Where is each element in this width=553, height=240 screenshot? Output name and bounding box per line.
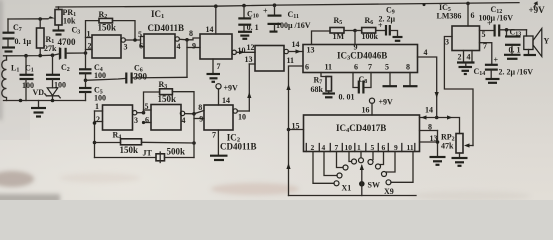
bottom wire of input tank bbox=[4, 100, 86, 102]
IC3 pin8 ground bbox=[409, 73, 411, 86]
capacitor C12 100u/16V (electrolytic, series) bbox=[479, 5, 527, 37]
speaker Y bbox=[524, 29, 550, 57]
wire gate2 out to gate3 pin8 bbox=[179, 38, 200, 40]
wire gateA out to gateB in bbox=[137, 112, 144, 114]
svg-text:100μ /16V: 100μ /16V bbox=[276, 21, 311, 30]
svg-text:+: + bbox=[494, 56, 499, 65]
+9V top supply rail bbox=[56, 3, 519, 7]
potentiometer JT 500k bbox=[95, 147, 195, 163]
potentiometer RP2 47k bbox=[441, 133, 473, 158]
svg-text:4: 4 bbox=[182, 116, 186, 125]
svg-text:CD4011B: CD4011B bbox=[148, 23, 185, 33]
node: rail junction at IC5 pin6 bbox=[466, 2, 470, 6]
svg-text:100: 100 bbox=[94, 71, 106, 80]
resistor R7 68k bbox=[311, 73, 336, 98]
svg-text:7: 7 bbox=[217, 62, 221, 71]
capacitor C9 2.2u (electrolytic) bbox=[378, 6, 403, 41]
svg-text:X1: X1 bbox=[342, 184, 352, 193]
svg-text:16: 16 bbox=[362, 106, 370, 115]
svg-text:1: 1 bbox=[357, 143, 361, 152]
svg-text:2: 2 bbox=[311, 143, 315, 152]
svg-text:5: 5 bbox=[482, 30, 486, 39]
node: C6 riser joins bbox=[185, 38, 189, 42]
clock node to IC4 pin14 bbox=[435, 116, 439, 120]
svg-text:1: 1 bbox=[87, 30, 91, 39]
svg-text:3: 3 bbox=[445, 38, 449, 47]
svg-text:4: 4 bbox=[467, 53, 471, 62]
node A junction R1 top bbox=[38, 17, 42, 21]
capacitor C6 390 bbox=[86, 64, 188, 84]
svg-text:8: 8 bbox=[198, 103, 202, 112]
node: rail junction at gate3 pin14 bbox=[214, 4, 218, 8]
svg-text:13: 13 bbox=[245, 55, 253, 64]
capacitor C8 0.01 bbox=[339, 73, 372, 102]
gate IC2a (pins 1,2 -> 3) bbox=[95, 102, 139, 158]
svg-text:8: 8 bbox=[406, 63, 410, 72]
node: R2 feedback joins bbox=[133, 38, 137, 42]
+9V terminal above IC2 pin14 bbox=[216, 84, 238, 106]
node C4/C5/C6 bbox=[84, 79, 88, 83]
svg-text:1: 1 bbox=[95, 102, 99, 111]
pin7 ground of IC2c bbox=[217, 130, 219, 155]
wire gate1 out to gate2 in bbox=[125, 39, 140, 41]
wire top node row (L1,C1,R1,C2 to C3) bbox=[4, 54, 60, 56]
svg-text:5: 5 bbox=[371, 143, 375, 152]
IC5 pin7 to C14 bbox=[480, 43, 492, 64]
svg-text:7: 7 bbox=[212, 131, 216, 140]
svg-text:0. 1: 0. 1 bbox=[247, 23, 259, 32]
resistor R4 150k bbox=[95, 131, 195, 156]
svg-text:IC4CD4017B: IC4CD4017B bbox=[336, 123, 386, 134]
IC5 pins 2,4 to ground bbox=[457, 51, 475, 75]
pin7 ground of IC1c bbox=[212, 59, 214, 73]
node bbox=[51, 99, 55, 103]
wire IC2 out riser to gate4 pin13 bbox=[248, 64, 250, 111]
svg-text:CD4011B: CD4011B bbox=[220, 142, 257, 152]
svg-text:8: 8 bbox=[189, 29, 193, 38]
svg-text:390: 390 bbox=[134, 72, 148, 82]
svg-text:2. 2μ: 2. 2μ bbox=[379, 15, 396, 24]
gate IC1a (pins 1,2 -> 3) bbox=[86, 30, 128, 59]
capacitor C14 2.2u/16V (electrolytic) bbox=[474, 56, 534, 83]
wire riser x187 down to C6 row bbox=[186, 40, 188, 78]
svg-text:4: 4 bbox=[177, 42, 181, 51]
node bbox=[24, 54, 28, 58]
svg-text:7: 7 bbox=[335, 143, 339, 152]
wire gateC pin9 tie bbox=[194, 118, 204, 120]
capacitor C11 100u/16V (electrolytic) bbox=[263, 5, 311, 31]
IC3 pin13 wire up to R5 bbox=[312, 31, 331, 45]
svg-text:SW: SW bbox=[368, 181, 380, 190]
node bbox=[51, 53, 55, 57]
svg-text:8: 8 bbox=[428, 123, 432, 132]
svg-text:11: 11 bbox=[325, 63, 333, 72]
svg-text:14: 14 bbox=[292, 40, 300, 49]
svg-text:3: 3 bbox=[124, 43, 128, 52]
IC3 CD4046B box bbox=[303, 43, 418, 73]
svg-text:+9V: +9V bbox=[379, 98, 394, 107]
svg-text:JT: JT bbox=[143, 149, 153, 158]
left riser continues to bottom rail bbox=[288, 130, 290, 196]
svg-text:9: 9 bbox=[192, 42, 196, 51]
svg-text:2. 2μ /16V: 2. 2μ /16V bbox=[499, 68, 534, 77]
svg-text:0. 01: 0. 01 bbox=[339, 93, 355, 102]
svg-text:0. 1: 0. 1 bbox=[509, 46, 521, 55]
capacitor C7 bbox=[3, 19, 22, 47]
svg-text:6: 6 bbox=[471, 11, 475, 20]
svg-text:3: 3 bbox=[134, 116, 138, 125]
capacitor C3 4700 bbox=[58, 26, 86, 60]
node bbox=[19, 99, 23, 103]
svg-text:0. 1μ: 0. 1μ bbox=[15, 37, 32, 46]
capacitor C1 100 bbox=[20, 56, 35, 101]
+9V terminal for IC4 pin16 bbox=[362, 98, 394, 116]
RP2 wiper wire up to IC5 pin3 bbox=[444, 37, 473, 146]
svg-text:150k: 150k bbox=[120, 145, 139, 155]
IC3 pin5 ground bbox=[389, 73, 391, 86]
rotary switch SW contacts X1..X9 bbox=[313, 152, 413, 197]
resistor R5 1M bbox=[330, 16, 355, 41]
capacitor C13 0.1 bbox=[504, 28, 521, 59]
svg-text:2: 2 bbox=[458, 53, 462, 62]
node on input column bbox=[93, 121, 97, 125]
RP2 bottom ground bbox=[452, 157, 468, 159]
svg-text:500k: 500k bbox=[167, 147, 186, 157]
svg-text:5: 5 bbox=[138, 30, 142, 39]
node bbox=[38, 54, 42, 58]
svg-text:9: 9 bbox=[394, 143, 398, 152]
svg-text:150k: 150k bbox=[98, 23, 117, 33]
wire C7/R1 node to PR1 wiper bbox=[8, 18, 48, 20]
svg-text:11: 11 bbox=[407, 143, 414, 152]
svg-text:150k: 150k bbox=[158, 94, 177, 104]
resistor R6 100k bbox=[355, 16, 385, 41]
svg-text:7: 7 bbox=[368, 63, 372, 72]
IC3 pin9 stub bbox=[354, 31, 356, 45]
wire gate3 out to gate4 pin12 bbox=[236, 51, 255, 53]
gate IC1c (pins 8,9 -> 10) bbox=[189, 6, 246, 71]
node at R4/JT merge bbox=[192, 141, 196, 145]
svg-text:+: + bbox=[263, 7, 268, 16]
bottom rail bbox=[289, 195, 417, 197]
svg-text:10: 10 bbox=[345, 143, 353, 152]
svg-text:27k: 27k bbox=[44, 44, 57, 53]
wire gate4 out to IC3 pin14 bbox=[288, 51, 303, 53]
node bbox=[142, 111, 146, 115]
resistor R1 27k bbox=[37, 19, 58, 56]
diode VD bbox=[33, 80, 61, 101]
wire gate3 pin9 from riser bbox=[187, 47, 200, 49]
node M column bbox=[84, 51, 88, 55]
svg-text:10: 10 bbox=[238, 113, 246, 122]
svg-text:4: 4 bbox=[322, 143, 326, 152]
ground under PR1 bbox=[53, 29, 65, 31]
node at R4 branch bbox=[93, 141, 97, 145]
svg-text:2: 2 bbox=[88, 42, 92, 51]
svg-text:IC3CD4046B: IC3CD4046B bbox=[337, 51, 387, 62]
node: rail junction at C10 bbox=[242, 4, 246, 8]
clock node to RP2 top bbox=[437, 118, 460, 134]
IC4 pins 8,13 to ground bbox=[420, 131, 438, 143]
svg-text:13: 13 bbox=[430, 134, 438, 143]
inductor L1 bbox=[2, 56, 20, 101]
svg-text:5: 5 bbox=[145, 102, 149, 111]
gate IC2b (pins 5,6 -> 4) bbox=[142, 102, 186, 130]
resistor R3 150k bbox=[144, 80, 195, 114]
node: rail junction at C11 bbox=[273, 3, 277, 7]
svg-text:14: 14 bbox=[222, 96, 230, 105]
svg-text:6: 6 bbox=[139, 42, 143, 51]
svg-text:9: 9 bbox=[199, 115, 203, 124]
capacitor C10 0.1 bbox=[238, 6, 259, 39]
switch wiper SW bbox=[359, 164, 380, 196]
IC3 pin6 wire to left riser bbox=[289, 66, 304, 130]
svg-text:12: 12 bbox=[247, 43, 255, 52]
svg-text:68k: 68k bbox=[311, 85, 324, 94]
capacitor C5 100 bbox=[79, 80, 106, 102]
svg-text:5: 5 bbox=[385, 63, 389, 72]
svg-text:10: 10 bbox=[238, 46, 246, 55]
IC4 CD4017B box bbox=[304, 115, 420, 152]
svg-text:14: 14 bbox=[206, 25, 214, 34]
svg-text:Y: Y bbox=[544, 37, 550, 46]
svg-text:LM386: LM386 bbox=[437, 12, 462, 21]
svg-text:+9V: +9V bbox=[529, 5, 546, 15]
node speaker/C13 bbox=[505, 28, 509, 32]
potentiometer PR1 10k bbox=[48, 7, 76, 30]
gate IC2c (pins 8,9 -> 10) bbox=[198, 96, 246, 140]
IC5 pin6 stub to rail bbox=[467, 3, 469, 26]
svg-text:13: 13 bbox=[307, 46, 315, 55]
svg-text:100μ /16V: 100μ /16V bbox=[479, 14, 514, 23]
svg-text:6: 6 bbox=[382, 143, 386, 152]
+9V label top right with arrow bbox=[529, 1, 546, 15]
node: rail junction near IC3 pin4 riser bbox=[423, 3, 426, 6]
svg-text:4: 4 bbox=[424, 48, 428, 57]
svg-text:6: 6 bbox=[145, 116, 149, 125]
svg-text:VD: VD bbox=[33, 88, 45, 97]
svg-text:1M: 1M bbox=[333, 32, 345, 41]
svg-text:4700: 4700 bbox=[58, 37, 77, 47]
svg-text:+9V: +9V bbox=[224, 84, 239, 93]
svg-text:6: 6 bbox=[354, 63, 358, 72]
svg-text:6: 6 bbox=[305, 63, 309, 72]
IC5 LM386 box bbox=[437, 3, 488, 51]
node bbox=[192, 112, 196, 116]
ground main left bbox=[31, 101, 46, 117]
wire gateB out to gateC pin8 bbox=[185, 111, 204, 114]
node R5/R6/pin9 bbox=[353, 29, 357, 33]
wire IC2c out up to IC1d pin13 bbox=[237, 110, 249, 112]
capacitor C2 100 bbox=[46, 55, 70, 89]
svg-text:100k: 100k bbox=[362, 32, 379, 41]
IC3 pin4 wire to clock node bbox=[418, 57, 437, 118]
svg-text:10k: 10k bbox=[63, 17, 76, 26]
svg-text:2: 2 bbox=[96, 115, 100, 124]
svg-text:14: 14 bbox=[425, 106, 433, 115]
svg-text:47k: 47k bbox=[441, 142, 454, 151]
gate IC1d (pins 12,13 -> 11) bbox=[245, 43, 295, 71]
capacitor C4 100 bbox=[79, 53, 106, 80]
wire riser x194 bbox=[193, 114, 195, 158]
svg-text:X9: X9 bbox=[384, 187, 394, 196]
ground under C7 bbox=[2, 46, 15, 48]
resistor R2 150k bbox=[98, 10, 136, 40]
gate IC1b (pins 5,6 -> 4) bbox=[138, 30, 181, 58]
svg-text:11: 11 bbox=[287, 56, 295, 65]
